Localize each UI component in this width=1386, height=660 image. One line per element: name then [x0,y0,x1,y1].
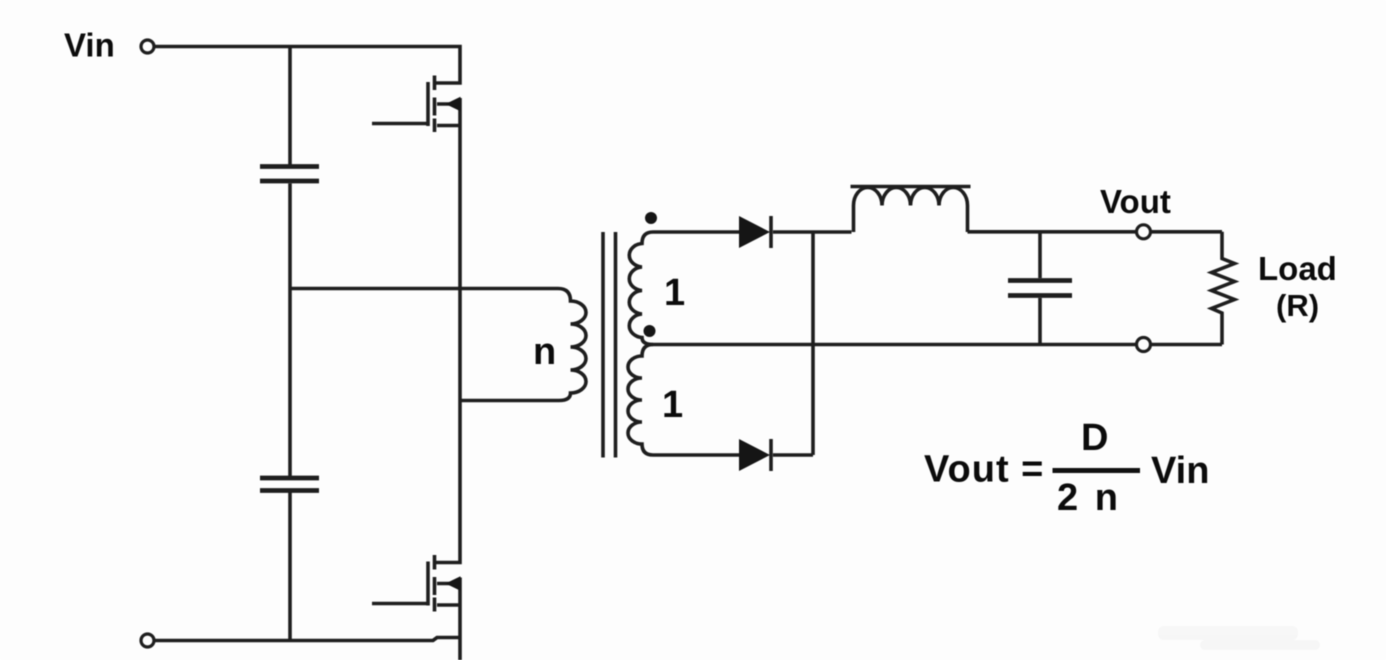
wire rectifier junction vertical [811,232,815,455]
svg-text:(R): (R) [1276,288,1319,323]
transformer core lines [603,232,616,458]
terminal Vout top (open circle) [1137,225,1151,239]
capacitor C3 output cap top lead [1038,232,1042,278]
diode D2 triangle [739,439,770,471]
transistor Q2 (bottom MOSFET) gate bar [426,562,430,606]
wire top output rail after inductor [968,230,1223,234]
secondary winding top (1) with anode wire to D1 [629,232,739,345]
diode D1 cathode bar [769,216,773,248]
wire D1 cathode to inductor [773,230,852,234]
diode D2 cathode bar [769,439,773,471]
transistor Q2 gate lead [372,602,428,606]
formula fraction bar [1053,468,1141,473]
transistor Q2 source stub [437,603,460,607]
svg-text:D: D [1081,417,1108,459]
phase dot top secondary [645,212,657,224]
svg-text:Load: Load [1258,250,1337,287]
wire between C1 and C2 [288,184,292,477]
transistor Q1 channel segments [433,76,437,133]
transistor Q1 source stub [437,124,460,128]
inductor L1 top bar [851,185,971,189]
phase dot center tap [644,325,656,337]
wire bottom output rail / center tap [653,343,1222,347]
transistor Q1 gate lead [372,122,428,126]
capacitor C3 plates [1008,281,1072,296]
capacitor C1 (upper input divider cap) [260,167,319,182]
terminal Vout bottom (open circle) [1137,338,1151,352]
wire D2 cathode to junction [773,453,813,457]
diode D1 triangle [739,216,770,248]
wire top rail from Vin to Q1 drain corner with drain stub [155,47,461,84]
wire + primary winding of transformer T1 (n turns) [290,289,586,401]
svg-text:2 n: 2 n [1057,477,1121,519]
terminal Vin (open circle) [141,40,154,53]
transistor Q1 body stub [437,98,460,126]
inductor L1 winding [854,188,968,233]
secondary winding bottom (1) with anode wire to D2 [628,345,739,456]
svg-text:Vin: Vin [64,27,115,64]
svg-text:n: n [533,331,556,373]
transistor Q2 channel segments [433,555,437,612]
transistor Q1 body arrow [446,97,461,111]
wire bottom rail [155,638,461,641]
wire Q1 source down to Q2 drain with drain stub [436,126,460,563]
svg-text:Vout =: Vout = [924,449,1044,491]
wire vertical input cap leg upper [288,47,292,165]
svg-text:1: 1 [662,384,683,426]
svg-text:1: 1 [664,272,685,314]
transistor Q2 body arrow [446,576,461,590]
wire C2 to bottom rail [288,493,292,641]
transistor Q1 (top MOSFET) gate bar [426,82,430,126]
resistor Load (R) zigzag [1212,232,1235,345]
terminal bottom-left (open circle) [141,634,154,647]
svg-text:Vout: Vout [1100,183,1171,220]
faint watermark smudge [1158,626,1320,650]
capacitor C2 (lower input divider cap) [260,478,319,491]
capacitor C3 bottom lead [1038,298,1042,345]
transistor Q2 body stub [437,578,460,606]
wire Q2 source to bottom edge [458,605,462,660]
svg-text:Vin: Vin [1151,450,1209,492]
